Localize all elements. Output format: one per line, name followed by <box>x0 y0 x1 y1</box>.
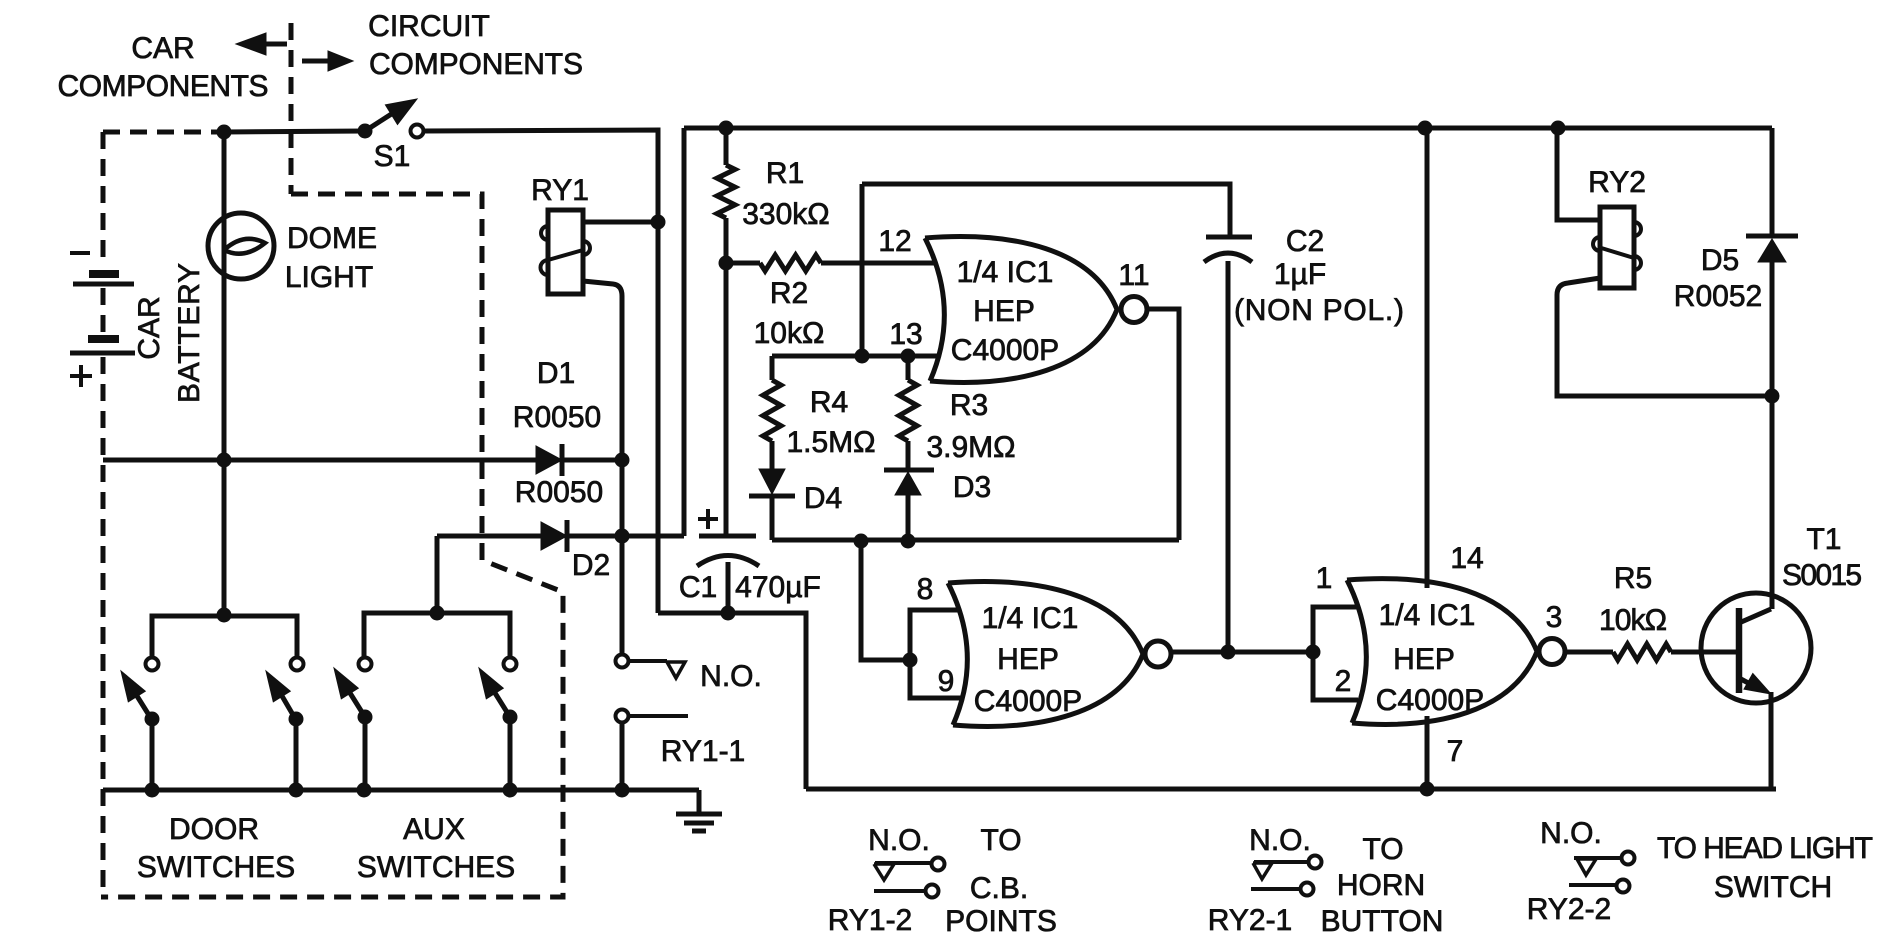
svg-text:11: 11 <box>1118 259 1149 292</box>
node gate2 input junction <box>903 653 918 668</box>
svg-text:8: 8 <box>917 573 934 606</box>
svg-text:1/4 IC1: 1/4 IC1 <box>1379 599 1476 632</box>
svg-text:SWITCH: SWITCH <box>1714 871 1832 904</box>
wire door switch bracket <box>152 616 297 657</box>
diode D5 <box>1746 234 1798 239</box>
wire D2 riser to top bus <box>682 128 687 536</box>
node RY1 top junction <box>651 215 666 230</box>
switch aux 1 <box>359 658 372 671</box>
transistor T1 <box>1701 593 1811 703</box>
svg-text:COMPONENTS: COMPONENTS <box>369 48 583 81</box>
svg-text:N.O.: N.O. <box>1249 824 1311 857</box>
svg-text:BUTTON: BUTTON <box>1321 905 1444 938</box>
svg-text:1: 1 <box>1316 562 1333 595</box>
contact RY2-1 <box>1254 860 1308 864</box>
svg-text:3: 3 <box>1546 601 1563 634</box>
resistor R1 <box>724 128 729 165</box>
wire top supply bus <box>684 126 1772 131</box>
svg-text:R5: R5 <box>1614 562 1652 595</box>
svg-text:C4000P: C4000P <box>974 685 1082 718</box>
svg-text:DOOR: DOOR <box>169 813 259 846</box>
node door bracket junction <box>217 608 232 623</box>
svg-text:SWITCHES: SWITCHES <box>357 851 515 884</box>
wire D2 cathode <box>567 534 684 539</box>
svg-text:2: 2 <box>1335 665 1352 698</box>
capacitor C2 <box>1206 235 1252 240</box>
svg-text:C4000P: C4000P <box>1376 684 1484 717</box>
diode D1 <box>536 446 562 474</box>
svg-text:470µF: 470µF <box>735 571 821 604</box>
arrow to car side <box>264 42 287 47</box>
svg-text:1µF: 1µF <box>1274 258 1326 291</box>
wire battery top to S1 <box>224 131 365 132</box>
contact RY2-2 <box>1574 856 1621 860</box>
svg-text:D1: D1 <box>537 357 575 390</box>
wire gate2 input drop <box>861 541 910 660</box>
svg-text:HEP: HEP <box>1393 643 1455 676</box>
wire IC1b output <box>1170 650 1313 655</box>
wire S1 to negative rail <box>424 130 658 613</box>
wire pin 1/2 bracket <box>1313 607 1358 700</box>
svg-text:R0050: R0050 <box>513 401 601 434</box>
node RY1-1 ground junction <box>615 783 630 798</box>
svg-text:R0050: R0050 <box>515 476 603 509</box>
wire R2 to pin 12 <box>821 261 936 266</box>
svg-text:C1: C1 <box>679 571 717 604</box>
node RY2 bus junction <box>1551 121 1566 136</box>
car components dashed border top <box>103 130 224 135</box>
svg-text:CIRCUIT: CIRCUIT <box>368 10 490 43</box>
switch door 2 <box>291 658 304 671</box>
svg-text:COMPONENTS: COMPONENTS <box>58 70 269 103</box>
svg-text:1.5MΩ: 1.5MΩ <box>786 426 875 459</box>
wire RY2 bottom lead <box>1557 278 1772 396</box>
svg-text:12: 12 <box>878 225 911 258</box>
svg-text:BATTERY: BATTERY <box>173 263 206 403</box>
relay coil RY1 <box>548 210 583 294</box>
svg-text:RY1-2: RY1-2 <box>828 904 913 937</box>
svg-text:D5: D5 <box>1701 244 1739 277</box>
svg-text:HORN: HORN <box>1337 869 1425 902</box>
wire RY1 coil top lead <box>583 220 658 225</box>
svg-text:S0015: S0015 <box>1782 559 1862 592</box>
diode D2 <box>541 522 567 550</box>
svg-text:RY2: RY2 <box>1588 166 1646 199</box>
svg-text:(NON POL.): (NON POL.) <box>1234 294 1404 327</box>
diode D3 <box>906 441 911 470</box>
resistor R3 <box>906 356 911 380</box>
wire pin 7 drop <box>1425 716 1430 789</box>
node R1 bottom junction <box>719 256 734 271</box>
node C2 bottom junction <box>1221 645 1236 660</box>
node D2 cathode junction <box>615 529 630 544</box>
switch door 1 <box>146 658 159 671</box>
wire D1 anode <box>103 458 536 463</box>
node pin 7 bus junction <box>1420 782 1435 797</box>
svg-text:14: 14 <box>1450 542 1483 575</box>
diode D4 <box>770 441 775 469</box>
svg-text:T1: T1 <box>1806 523 1841 556</box>
svg-text:R2: R2 <box>770 277 808 310</box>
svg-text:7: 7 <box>1447 735 1464 768</box>
svg-text:TO: TO <box>1362 833 1403 866</box>
svg-text:RY1: RY1 <box>531 174 589 207</box>
node aux1 ground <box>357 783 372 798</box>
svg-text:D2: D2 <box>572 549 610 582</box>
svg-text:AUX: AUX <box>403 813 465 846</box>
node aux2 ground <box>503 783 518 798</box>
wire RY2 top lead <box>1557 128 1600 220</box>
contact RY1-2 <box>875 861 931 865</box>
svg-text:10kΩ: 10kΩ <box>1599 604 1667 637</box>
car/circuit boundary dashed divider <box>289 23 294 194</box>
svg-text:13: 13 <box>889 318 922 351</box>
wire timing node <box>772 538 1179 543</box>
svg-text:SWITCHES: SWITCHES <box>137 851 295 884</box>
relay coil RY2 <box>1600 207 1634 288</box>
node feedback/pin13 junction <box>855 349 870 364</box>
wire RY1 coil bottom lead <box>583 281 622 654</box>
battery minus sign <box>70 251 90 255</box>
wire T1 collector <box>1770 396 1775 609</box>
switch S1 <box>358 124 373 139</box>
node gate3 input junction <box>1306 645 1321 660</box>
resistor R2 <box>760 255 821 271</box>
svg-text:HEP: HEP <box>997 643 1059 676</box>
svg-text:N.O.: N.O. <box>868 824 930 857</box>
wire pin 14 riser <box>1425 128 1430 588</box>
wire feedback top <box>862 184 1230 237</box>
svg-text:10kΩ: 10kΩ <box>754 317 825 350</box>
wire IC1a output <box>1146 309 1179 540</box>
svg-text:DOME: DOME <box>287 222 377 255</box>
svg-text:N.O.: N.O. <box>700 660 762 693</box>
wire pin 8/9 bracket <box>910 610 961 698</box>
op-amp U1 gate IC1a <box>925 237 1117 383</box>
svg-text:POINTS: POINTS <box>945 905 1057 938</box>
contact RY1-1 movable <box>616 655 629 668</box>
node D5/RY2 junction <box>1765 389 1780 404</box>
arrow to circuit side <box>302 59 330 64</box>
circuit components dashed enclosure <box>101 194 563 897</box>
wire R1 to C1 positive <box>724 263 729 536</box>
op-amp U1 gate IC1c <box>1347 579 1537 725</box>
node dome light top <box>217 125 232 140</box>
svg-text:C2: C2 <box>1286 225 1324 258</box>
svg-text:3.9MΩ: 3.9MΩ <box>926 431 1015 464</box>
node door1 ground <box>145 783 160 798</box>
svg-text:CAR: CAR <box>133 296 166 359</box>
node R4 bottom junction <box>854 534 869 549</box>
resistor R5 <box>1564 650 1613 655</box>
svg-text:D4: D4 <box>804 482 842 515</box>
car components dashed border left <box>101 132 106 267</box>
wire RY1-1 movable riser <box>615 529 630 544</box>
node aux bracket junction <box>430 606 445 621</box>
svg-text:TO HEAD LIGHT: TO HEAD LIGHT <box>1657 832 1873 865</box>
svg-text:S1: S1 <box>374 140 411 173</box>
svg-text:RY1-1: RY1-1 <box>661 735 746 768</box>
wire dome light drop <box>222 132 227 460</box>
node D1 cathode junction <box>615 453 630 468</box>
svg-text:1/4 IC1: 1/4 IC1 <box>957 256 1054 289</box>
node pin14 bus junction <box>1418 121 1433 136</box>
wire pin 13 bracket <box>772 354 939 359</box>
svg-text:9: 9 <box>938 665 955 698</box>
svg-text:CAR: CAR <box>131 32 194 65</box>
svg-text:RY2-1: RY2-1 <box>1208 904 1293 937</box>
node C1 negative junction <box>721 606 736 621</box>
wire switch ground rail <box>103 788 699 793</box>
svg-text:D3: D3 <box>953 471 991 504</box>
node R3 top junction <box>901 349 916 364</box>
svg-text:R3: R3 <box>950 389 988 422</box>
battery CAR BATTERY <box>89 270 119 278</box>
node door2 ground <box>289 783 304 798</box>
svg-text:TO: TO <box>980 824 1021 857</box>
dome light lamp <box>208 213 274 279</box>
svg-text:RY2-2: RY2-2 <box>1527 893 1612 926</box>
svg-text:N.O.: N.O. <box>1540 817 1602 850</box>
ground <box>697 790 702 814</box>
svg-text:C.B.: C.B. <box>970 872 1028 905</box>
wire bottom bus <box>806 787 1776 792</box>
svg-text:LIGHT: LIGHT <box>285 261 373 294</box>
svg-text:HEP: HEP <box>973 295 1035 328</box>
wire C1 negative rail <box>658 613 806 789</box>
wire D1 cathode <box>562 458 622 463</box>
resistor R4 <box>770 356 775 380</box>
switch aux 2 <box>504 658 517 671</box>
op-amp U1 gate IC1b <box>948 582 1143 727</box>
wire aux switch bracket <box>364 613 510 657</box>
node dome/door junction <box>217 453 232 468</box>
svg-text:R0052: R0052 <box>1674 280 1762 313</box>
contact RY1-1 fixed <box>616 710 629 723</box>
wire feedback riser <box>860 184 865 356</box>
wire T1 emitter <box>1769 692 1774 789</box>
svg-text:R1: R1 <box>766 157 804 190</box>
svg-text:330kΩ: 330kΩ <box>742 198 829 231</box>
wire top bus to D5 <box>1770 128 1775 236</box>
node R1 top <box>719 121 734 136</box>
wire aux switch stem <box>435 536 440 613</box>
svg-text:C4000P: C4000P <box>951 334 1059 367</box>
wire door switch stem <box>222 460 227 616</box>
wire D2 anode <box>437 534 541 539</box>
svg-text:1/4 IC1: 1/4 IC1 <box>982 602 1079 635</box>
capacitor C1 <box>699 534 756 539</box>
svg-text:R4: R4 <box>810 386 848 419</box>
node R3 bottom junction <box>901 534 916 549</box>
capacitor C1 plus sign <box>698 517 718 521</box>
battery plus sign <box>70 374 92 378</box>
